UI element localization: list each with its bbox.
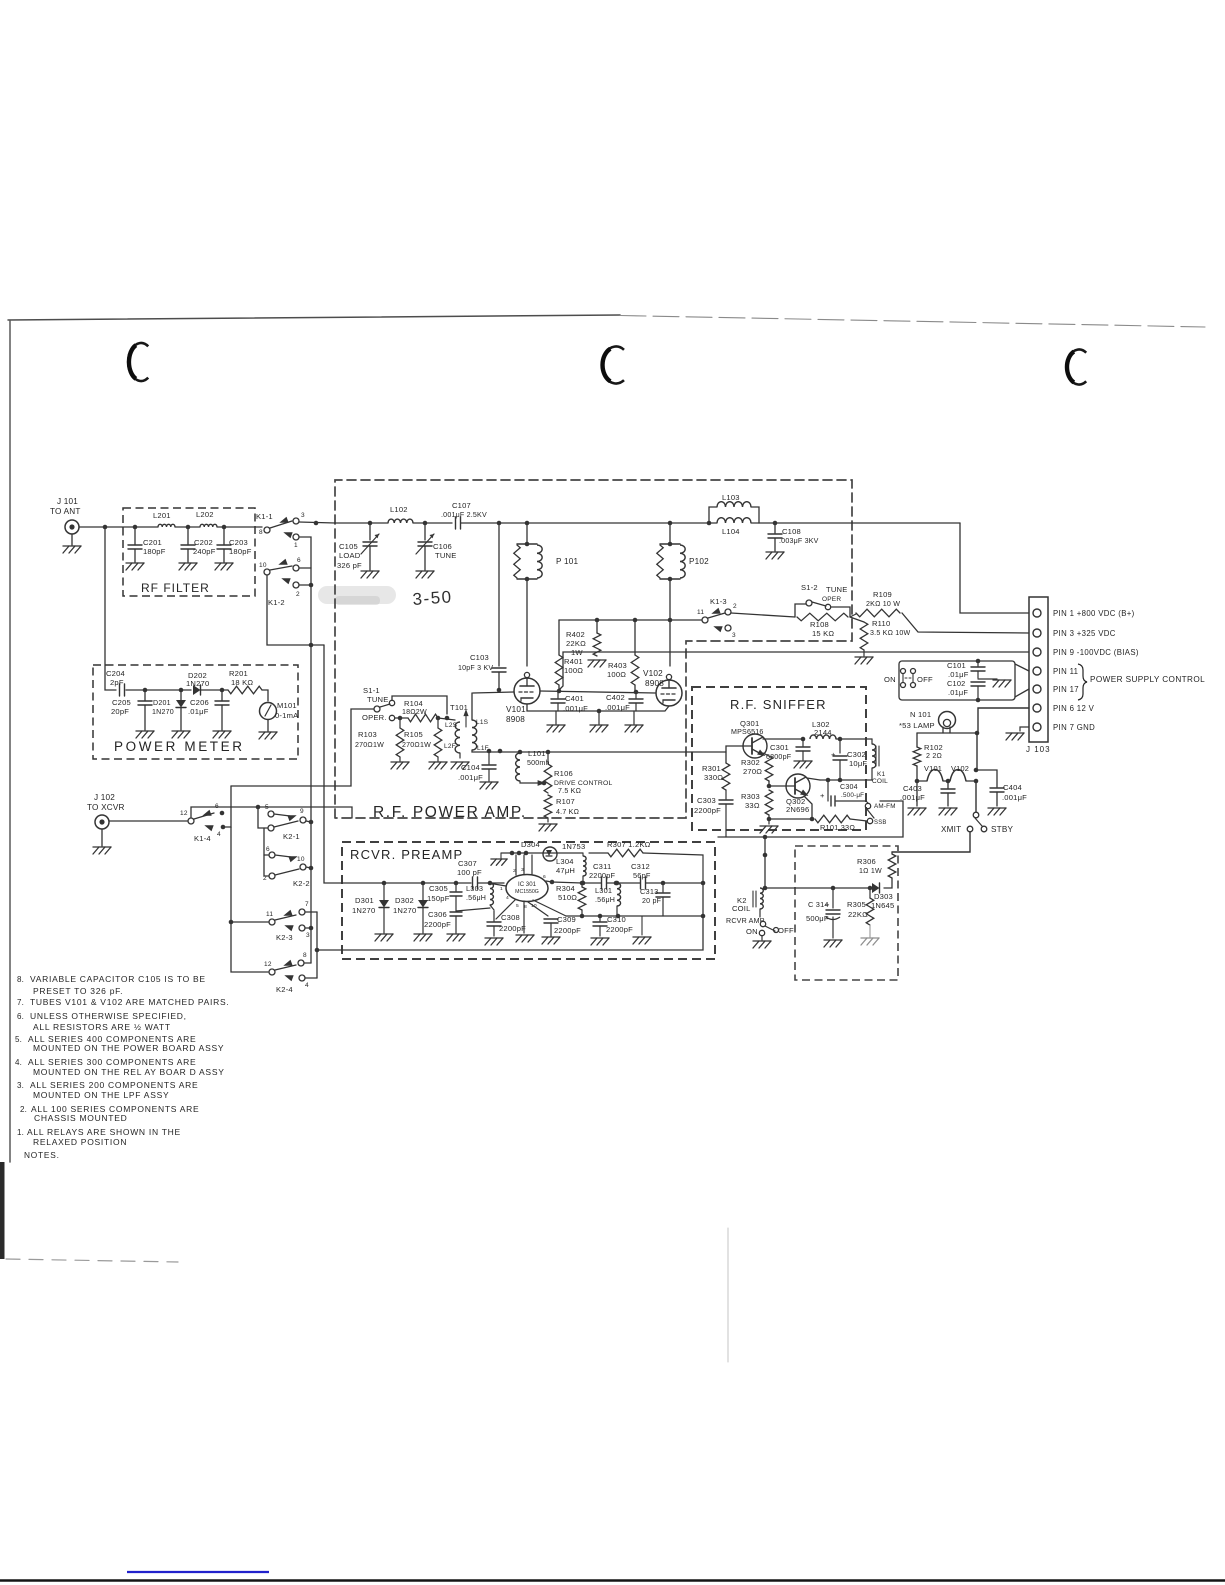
svg-text:OPER: OPER: [822, 596, 841, 603]
svg-text:K2-1: K2-1: [283, 832, 300, 841]
resistor R102: [913, 733, 943, 766]
svg-text:3: 3: [301, 512, 305, 519]
relay contact K1-4: [180, 803, 225, 843]
potentiometer R106: [544, 752, 612, 795]
wire R307 right: [643, 853, 703, 883]
capacitor C102: [947, 679, 985, 702]
svg-text:56pF: 56pF: [633, 871, 651, 880]
svg-text:1N270: 1N270: [186, 679, 209, 688]
svg-text:IC 301: IC 301: [518, 881, 537, 888]
svg-text:.001μF 2.5KV: .001μF 2.5KV: [441, 511, 487, 519]
relay coil K2: [732, 888, 763, 913]
wire R303 bottom: [767, 815, 772, 821]
svg-text:.001μF: .001μF: [458, 773, 483, 782]
svg-text:TUNE: TUNE: [367, 695, 388, 704]
svg-text:C104: C104: [461, 763, 480, 772]
svg-text:C203: C203: [229, 538, 248, 547]
svg-text:P102: P102: [689, 557, 709, 566]
svg-text:7.5 KΩ: 7.5 KΩ: [558, 787, 581, 795]
wire J101 to filter: [79, 525, 158, 530]
svg-text:3.5 KΩ 10W: 3.5 KΩ 10W: [870, 629, 911, 637]
page top edge line: [8, 315, 1205, 327]
wire preamp main: [342, 881, 471, 886]
wire box to PIN11: [1015, 664, 1029, 671]
capacitor C105: [337, 521, 379, 570]
svg-text:C303: C303: [697, 796, 716, 805]
svg-text:326 pF: 326 pF: [337, 561, 362, 570]
svg-text:R.F. POWER AMP.: R.F. POWER AMP.: [373, 804, 527, 821]
wire relay board row: [765, 886, 872, 891]
capacitor C305: [427, 883, 462, 911]
IC IC301: [500, 867, 548, 910]
diode D201: [152, 690, 186, 730]
wire K2-4 pin8: [304, 962, 311, 964]
relay contact K1-1: [256, 512, 305, 549]
filament V101: [924, 764, 943, 781]
wire relay bus x311: [309, 585, 314, 963]
wire cap mid to gnd: [978, 678, 997, 680]
J103 pin 6: [1033, 704, 1095, 713]
capacitor C104: [458, 751, 496, 782]
capacitor C108: [768, 523, 819, 551]
svg-text:XMIT: XMIT: [941, 825, 961, 834]
svg-text:POWER SUPPLY CONTROL: POWER SUPPLY CONTROL: [1090, 675, 1205, 684]
svg-text:CHASSIS MOUNTED: CHASSIS MOUNTED: [34, 1113, 127, 1123]
svg-text:C304: C304: [840, 783, 858, 791]
ground C309: [542, 937, 560, 944]
RCVR PREAMP box: [342, 842, 715, 959]
svg-text:R110: R110: [872, 619, 890, 628]
svg-text:240pF: 240pF: [193, 547, 216, 556]
resistor R305: [847, 888, 874, 925]
switch ON OFF: [884, 669, 933, 688]
svg-text:R403: R403: [608, 661, 627, 670]
svg-text:K1-1: K1-1: [256, 512, 273, 521]
svg-text:2KΩ 10 W: 2KΩ 10 W: [866, 600, 900, 608]
plate choke P101: [514, 523, 579, 666]
svg-text:PIN 9 -100VDC (BIAS): PIN 9 -100VDC (BIAS): [1053, 648, 1139, 657]
svg-text:COIL: COIL: [872, 778, 888, 785]
svg-text:RELAXED POSITION: RELAXED POSITION: [33, 1137, 127, 1147]
svg-text:2: 2: [296, 591, 300, 598]
svg-text:PIN 3 +325 VDC: PIN 3 +325 VDC: [1053, 629, 1116, 638]
ground C402: [625, 711, 643, 732]
svg-text:UNLESS OTHERWISE SPECIFIED,: UNLESS OTHERWISE SPECIFIED,: [30, 1011, 187, 1021]
wire Q302 collector: [806, 770, 828, 780]
capacitor C202: [181, 527, 216, 562]
svg-text:TUBES V101 & V102 ARE MATCHE: TUBES V101 & V102 ARE MATCHED PAIRS.: [30, 997, 229, 1007]
svg-text:R306: R306: [857, 857, 876, 866]
svg-text:2 2Ω: 2 2Ω: [926, 752, 942, 760]
ground C201: [126, 563, 144, 570]
svg-text:D303: D303: [874, 892, 893, 901]
ground cathode: [590, 711, 608, 732]
capacitor C101: [947, 659, 985, 679]
capacitor C302: [831, 739, 867, 780]
svg-text:K2-4: K2-4: [276, 985, 293, 994]
wire box to PIN17: [1015, 689, 1029, 697]
svg-text:C307: C307: [458, 859, 477, 868]
svg-text:PIN 6 12 V: PIN 6 12 V: [1053, 704, 1095, 713]
inductor L103: [709, 493, 759, 523]
tube V102: [643, 669, 682, 706]
svg-text:.001μF: .001μF: [563, 704, 588, 713]
wire preamp top bus: [501, 851, 583, 856]
svg-text:7: 7: [305, 901, 309, 908]
svg-text:18 KΩ: 18 KΩ: [231, 678, 253, 687]
svg-text:C107: C107: [452, 501, 471, 510]
svg-text:2144: 2144: [814, 728, 832, 737]
svg-text:6: 6: [297, 557, 301, 564]
svg-text:PIN 7 GND: PIN 7 GND: [1053, 723, 1095, 732]
relay coil K1: [872, 739, 888, 785]
svg-text:10: 10: [297, 856, 305, 863]
switch AM-FM: [865, 803, 895, 826]
ground filament left: [908, 781, 926, 815]
ground C310: [591, 938, 609, 945]
svg-text:0-1mA: 0-1mA: [275, 711, 299, 720]
wire Q302 emitter: [804, 796, 812, 819]
svg-text:R.F. SNIFFER: R.F. SNIFFER: [730, 697, 827, 712]
svg-text:C202: C202: [194, 538, 213, 547]
ground R103: [391, 757, 409, 769]
wire XMIT to R306: [892, 832, 970, 852]
svg-text:10pF 3 KV: 10pF 3 KV: [458, 664, 493, 672]
J103 pin 17: [1033, 685, 1079, 694]
inductor L302: [810, 720, 836, 739]
svg-text:3: 3: [732, 632, 736, 639]
wire to preamp gnd bus: [317, 949, 342, 951]
svg-text:150pF: 150pF: [427, 894, 450, 903]
resistor R402: [566, 620, 601, 657]
punch hole middle: [602, 347, 624, 384]
capacitor C314: [806, 888, 840, 938]
svg-text:100Ω: 100Ω: [607, 670, 626, 679]
svg-text:L304: L304: [556, 857, 574, 866]
wire preamp low bus: [566, 914, 705, 919]
svg-text:2.: 2.: [20, 1105, 27, 1114]
capacitor C308: [487, 911, 526, 936]
svg-text:15 KΩ: 15 KΩ: [812, 629, 834, 638]
IC pin6 wire: [546, 880, 582, 885]
svg-text:PIN 17: PIN 17: [1053, 685, 1079, 694]
faint fold line: [727, 1228, 729, 1362]
svg-text:R103: R103: [358, 730, 377, 739]
svg-text:P 101: P 101: [556, 557, 578, 566]
svg-text:J 102: J 102: [94, 793, 115, 802]
ground J102: [93, 829, 111, 854]
svg-text:L104: L104: [722, 527, 740, 536]
svg-text:C102: C102: [947, 679, 965, 688]
capacitor C106: [416, 523, 456, 570]
ground C306: [447, 934, 465, 941]
svg-text:V102: V102: [951, 764, 969, 773]
svg-text:L201: L201: [153, 511, 171, 520]
svg-text:R101 33Ω: R101 33Ω: [820, 823, 855, 832]
svg-text:L2S: L2S: [445, 722, 458, 729]
svg-text:2200pF: 2200pF: [554, 926, 581, 935]
capacitor C307: [457, 859, 482, 889]
svg-text:6: 6: [266, 846, 270, 853]
svg-text:C103: C103: [470, 653, 489, 662]
svg-text:500μF: 500μF: [806, 914, 829, 923]
svg-text:K1-2: K1-2: [268, 598, 285, 607]
capacitor C304: [820, 780, 866, 806]
svg-text:180pF: 180pF: [229, 547, 252, 556]
svg-text:L101: L101: [528, 749, 546, 758]
svg-text:R109: R109: [873, 590, 892, 599]
svg-text:OFF: OFF: [917, 675, 933, 684]
punch hole left: [129, 343, 149, 381]
switch XMIT STBY: [941, 812, 1014, 834]
svg-text:K1-4: K1-4: [194, 834, 211, 843]
svg-text:SSB: SSB: [874, 820, 887, 826]
bottom blue line: [127, 1571, 269, 1573]
svg-text:R402: R402: [566, 630, 585, 639]
inductor L102: [388, 505, 413, 523]
svg-text:POWER METER: POWER METER: [114, 739, 245, 754]
relay contact K2-4: [264, 952, 309, 994]
ground R105: [429, 757, 447, 769]
svg-text:330Ω: 330Ω: [704, 773, 723, 782]
svg-text:LOAD: LOAD: [339, 551, 361, 560]
svg-text:OFF: OFF: [778, 926, 794, 935]
wire K2-3 feed: [231, 921, 269, 923]
ground R110: [855, 650, 873, 664]
svg-text:D201: D201: [153, 699, 171, 707]
wire S1-1 oper to R104: [395, 716, 408, 721]
wire L302 out: [836, 737, 872, 742]
connector J102: [87, 793, 125, 829]
svg-text:R304: R304: [556, 884, 575, 893]
wire J101 down to meter: [105, 527, 116, 690]
svg-text:22KΩ: 22KΩ: [848, 910, 868, 919]
wire K1-1 common: [299, 521, 335, 526]
svg-text:L202: L202: [196, 510, 214, 519]
switch S1-2: [795, 583, 850, 617]
wire grid bus: [497, 688, 655, 695]
svg-text:4: 4: [506, 895, 509, 901]
resistor R201: [228, 669, 262, 694]
svg-text:ALL RESISTORS ARE ½ WATT: ALL RESISTORS ARE ½ WATT: [33, 1022, 171, 1032]
svg-text:D304: D304: [521, 840, 540, 849]
wire C307 to IC: [478, 881, 504, 886]
svg-text:12: 12: [180, 810, 188, 817]
wire sniffer out right: [866, 779, 872, 781]
svg-text:PIN 1 +800 VDC (B+): PIN 1 +800 VDC (B+): [1053, 609, 1135, 618]
svg-text:PIN 11: PIN 11: [1053, 667, 1078, 676]
svg-text:R105: R105: [404, 730, 423, 739]
wire K1-1 pin1 to K1-2: [299, 537, 311, 585]
wire K2-1 feed: [258, 807, 268, 828]
svg-text:K2-2: K2-2: [293, 879, 310, 888]
wire drive to sniffer: [518, 750, 692, 755]
svg-text:R301: R301: [702, 764, 721, 773]
svg-text:C311: C311: [593, 862, 611, 871]
svg-text:R305: R305: [847, 900, 866, 909]
relay contact K2-2: [263, 846, 310, 888]
svg-text:COIL: COIL: [732, 904, 751, 913]
ground R107: [539, 818, 557, 831]
svg-text:.500-μF: .500-μF: [841, 792, 864, 799]
ground D301: [375, 934, 393, 941]
capacitor C313: [640, 883, 670, 916]
svg-text:+: +: [831, 750, 836, 759]
svg-text:C308: C308: [501, 913, 520, 922]
ground C108: [766, 552, 784, 559]
svg-text:.001μF: .001μF: [1002, 793, 1027, 802]
svg-text:*53 LAMP: *53 LAMP: [899, 721, 935, 730]
ground low bus: [633, 916, 651, 944]
wire K2-4 pin4: [305, 977, 317, 979]
ground C314: [824, 940, 842, 947]
svg-text:R104: R104: [404, 699, 423, 708]
wire AM-FM to C304: [866, 801, 868, 803]
wire K2-2 feed: [264, 828, 269, 876]
label J103: [1026, 745, 1051, 754]
IC pin1 wire: [488, 883, 506, 886]
svg-text:.56μH: .56μH: [466, 894, 486, 902]
svg-text:1: 1: [294, 542, 298, 549]
wire L201-L202: [175, 525, 200, 530]
svg-text:L102: L102: [390, 505, 408, 514]
wire Q301 collector: [763, 737, 805, 742]
svg-text:ON: ON: [884, 675, 896, 684]
resistor R108: [797, 613, 848, 638]
ghost ground R305: [861, 925, 879, 945]
wire rcvr line x324: [324, 645, 342, 883]
capacitor C204: [106, 669, 125, 696]
wire PIN9 control box: [898, 652, 900, 661]
ground C301: [794, 761, 812, 768]
svg-text:8908: 8908: [506, 715, 525, 724]
J103 pin 9: [1033, 648, 1139, 657]
ground IC: [516, 935, 534, 942]
wire T101 primary bottom: [459, 753, 461, 758]
wire Q301 base: [726, 746, 743, 763]
svg-text:RCVR. PREAMP: RCVR. PREAMP: [350, 847, 463, 862]
svg-text:C403: C403: [903, 784, 922, 793]
svg-text:9: 9: [300, 808, 304, 815]
svg-text:8: 8: [259, 529, 263, 536]
switch RCVR AMP: [726, 909, 794, 936]
J103 pin 3: [1033, 629, 1116, 638]
svg-text:R307 1.2KΩ: R307 1.2KΩ: [607, 840, 651, 849]
svg-text:R107: R107: [556, 797, 575, 806]
diode D301: [352, 883, 389, 933]
svg-text:C 314: C 314: [808, 900, 829, 909]
svg-text:20 pF: 20 pF: [642, 897, 662, 905]
relay contact K2-3: [266, 901, 310, 942]
wire J102 to K1-4: [109, 820, 188, 822]
transistor Q302: [786, 774, 810, 814]
inductor L202: [196, 510, 217, 527]
svg-text:47μH: 47μH: [556, 866, 575, 875]
resistor R301: [702, 763, 730, 790]
svg-text:.01μF: .01μF: [948, 688, 968, 697]
resistor R303: [741, 790, 773, 815]
RF FILTER box: [123, 508, 255, 596]
svg-text:MPS6516: MPS6516: [731, 728, 764, 736]
svg-text:18Ω2W: 18Ω2W: [402, 708, 427, 716]
ground C308: [485, 938, 503, 945]
svg-text:.56μH: .56μH: [595, 896, 615, 904]
ground R402: [588, 660, 606, 667]
wire oper line y786: [231, 709, 374, 786]
capacitor C206: [188, 690, 229, 730]
svg-text:1Ω 1W: 1Ω 1W: [859, 867, 882, 875]
wire L202 out: [217, 525, 262, 530]
ground D201: [172, 731, 190, 738]
wire K1-4 common line: [191, 805, 352, 818]
wire bus P102 to L103: [670, 521, 711, 526]
transistor Q301: [731, 719, 767, 758]
svg-text:L1S: L1S: [476, 719, 489, 726]
wire Q301 emitter to R302: [763, 753, 769, 756]
svg-text:V101: V101: [924, 764, 942, 773]
punch hole right: [1066, 350, 1086, 385]
resistor R306: [857, 852, 896, 878]
svg-text:J 101: J 101: [57, 497, 78, 506]
POWER METER title: [114, 739, 245, 754]
svg-text:PRESET TO 326 pF.: PRESET TO 326 pF.: [33, 986, 123, 996]
svg-text:C101: C101: [947, 661, 966, 670]
svg-text:C302: C302: [847, 750, 866, 759]
wire R201 to meter: [262, 690, 268, 701]
svg-text:.001μF: .001μF: [605, 703, 630, 712]
svg-text:C105: C105: [339, 542, 358, 551]
svg-text:1N753: 1N753: [562, 842, 585, 851]
svg-text:6: 6: [543, 874, 546, 880]
capacitor C203: [217, 527, 252, 562]
connector J103 body: [1029, 597, 1048, 742]
resistor R110: [850, 617, 911, 650]
capacitor C205: [111, 690, 152, 730]
wire R302 to Q302 base: [767, 781, 786, 788]
svg-text:10: 10: [259, 562, 267, 569]
svg-text:TUNE: TUNE: [826, 585, 847, 594]
svg-text:D302: D302: [395, 896, 414, 905]
svg-text:R303: R303: [741, 792, 760, 801]
capacitor C303: [694, 790, 733, 837]
wire C311 to C312: [607, 881, 640, 886]
photocopy smudge: [318, 586, 396, 605]
svg-text:C312: C312: [631, 862, 650, 871]
RF SNIFFER box: [692, 687, 866, 830]
wire K1 coil bottom: [871, 768, 873, 780]
svg-text:C301: C301: [770, 743, 789, 752]
control box loop: [899, 661, 1015, 700]
meter M101: [260, 701, 300, 720]
svg-text:S1-2: S1-2: [801, 583, 818, 592]
connector J101: [50, 497, 81, 534]
svg-text:L301: L301: [595, 886, 612, 895]
wire S1-1 tune up: [392, 696, 447, 714]
diode D202: [186, 671, 209, 695]
svg-text:10μF: 10μF: [849, 759, 867, 768]
wire bus K1-1 to C105: [335, 522, 370, 524]
svg-text:OPER.: OPER.: [362, 713, 387, 722]
wire filament bus: [915, 766, 979, 783]
svg-text:2200pF: 2200pF: [499, 924, 526, 933]
RCVR PREAMP title: [350, 847, 463, 862]
svg-text:270Ω1W: 270Ω1W: [355, 741, 384, 749]
svg-text:7.: 7.: [17, 998, 24, 1007]
svg-text:V101: V101: [506, 705, 526, 714]
capacitor C301: [766, 739, 810, 761]
svg-text:R106: R106: [554, 769, 573, 778]
wire PIN6: [977, 708, 1029, 770]
